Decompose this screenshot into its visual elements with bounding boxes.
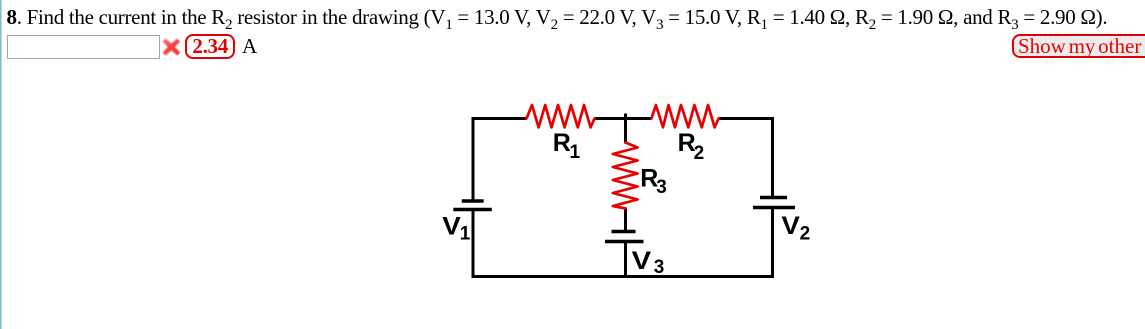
svg-text:R: R [553,129,571,157]
svg-text:3: 3 [654,257,665,278]
label V2 [781,212,810,245]
resistor R3 [613,143,638,209]
label R3 [640,165,667,199]
wire right side (above battery V2) [771,117,774,198]
unit A [242,36,257,57]
label V3 [632,247,665,278]
svg-text:2: 2 [800,223,811,244]
svg-text:2: 2 [694,143,705,164]
question text [7,5,1108,29]
wire top-right segment [719,117,775,120]
wrong-answer X mark [162,38,181,56]
battery V1 [453,201,492,210]
svg-text:3: 3 [656,177,667,198]
answer input box [7,35,160,58]
svg-text:1: 1 [460,223,471,244]
wire right side (below battery V2) [771,208,774,279]
svg-text:V: V [442,213,461,241]
wire top-middle segment [595,117,652,120]
wire left side (above battery V1) [472,117,475,201]
wire middle (below R3, above battery V3) [624,208,627,232]
battery V2 [753,198,795,208]
wire bottom [472,275,775,278]
left page edge line [0,0,2,329]
circuit schematic image [430,85,830,300]
resistor R1 [527,105,595,127]
node junction / wire middle branch top [624,114,627,144]
wire left side (below battery V1) [472,210,475,279]
label R1 [553,129,581,163]
label R2 [678,129,705,164]
wire top-left segment [472,117,527,120]
resistor R2 [652,105,719,127]
svg-text:V: V [781,212,800,240]
battery V3 [605,232,644,242]
answer key 2.34 [185,34,235,59]
show my other answers button [1012,34,1145,58]
svg-text:V: V [632,247,652,275]
label V1 [442,213,471,245]
wire middle (below battery V3) [624,242,627,279]
svg-text:1: 1 [570,142,581,163]
